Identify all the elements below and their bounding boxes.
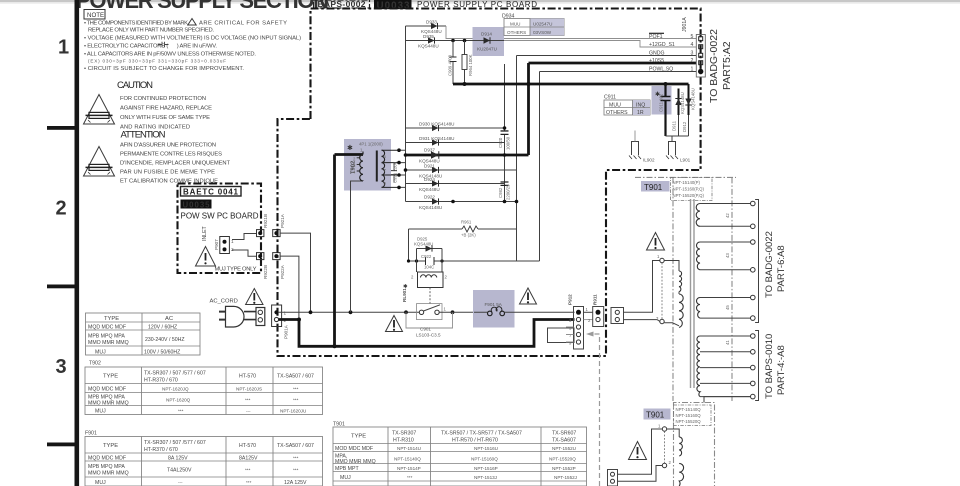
diode D914 (473, 32, 505, 52)
AC plug (219, 306, 256, 327)
svg-text:3: 3 (691, 51, 694, 57)
T902 primary winding (353, 148, 363, 182)
svg-text:HT-R570 / HT-R670: HT-R570 / HT-R670 (452, 438, 498, 444)
second T901 small winding (667, 429, 683, 456)
diode D931 (406, 136, 505, 146)
node matrix left joints (404, 153, 408, 157)
svg-text:***: *** (293, 456, 299, 461)
node C920 top (503, 126, 507, 130)
T902 secondary winding (382, 150, 400, 187)
svg-text:TX-SR307 / 507 /577 / 607: TX-SR307 / 507 /577 / 607 (144, 371, 206, 377)
svg-text:D912: D912 (682, 121, 687, 132)
wire +10S5 thick (529, 62, 697, 65)
svg-text:TX-SR507 / TX-SR577 / TX-SA507: TX-SR507 / TX-SR577 / TX-SA507 (441, 431, 522, 437)
svg-text:PART5:A2: PART5:A2 (721, 41, 733, 90)
svg-text:MPB MPT: MPB MPT (335, 466, 359, 472)
TO BADG-0022 PART5:A2 rotated text (708, 29, 733, 103)
caution text (120, 96, 212, 131)
svg-text:NPT-1552J: NPT-1552J (554, 475, 577, 480)
svg-text:P907: P907 (214, 239, 219, 250)
svg-text:TX-SR307 / 507 /577 / 607: TX-SR307 / 507 /577 / 607 (144, 440, 206, 446)
svg-text:D914: D914 (481, 32, 492, 37)
svg-text:T901: T901 (644, 183, 663, 192)
second T901 link dotted (664, 431, 666, 463)
svg-text:MUJ: MUJ (95, 480, 106, 486)
svg-text:***: *** (246, 480, 252, 485)
caution triangle with fuse (84, 95, 115, 125)
rail x=504.5 (504, 64, 506, 202)
svg-text:P901A: P901A (284, 324, 289, 339)
diode D912 (682, 84, 696, 132)
svg-text:120V / 60HZ: 120V / 60HZ (148, 324, 177, 330)
note bullet list (84, 21, 301, 73)
attention triangle with fuse (84, 147, 115, 177)
svg-text:1R: 1R (637, 110, 644, 116)
node bottom row joints (451, 200, 455, 204)
T902 core (376, 151, 378, 182)
secondary group bracket upper (755, 200, 758, 323)
AC spec table (86, 313, 201, 355)
svg-text:ET CALIBRATION COMME INDIQUE: ET CALIBRATION COMME INDIQUE (120, 179, 218, 185)
P912 pin stubs (566, 327, 574, 342)
guide arrow to P911 (593, 334, 600, 486)
svg-text:L901: L901 (680, 158, 691, 163)
svg-text:TO BADG-0022: TO BADG-0022 (708, 29, 720, 103)
safety mark triangle in note line1 (188, 19, 196, 26)
svg-text:POW SW PC BOARD: POW SW PC BOARD (181, 212, 259, 221)
svg-text:2: 2 (691, 58, 694, 64)
svg-text:***: *** (245, 398, 251, 403)
svg-text:D933: D933 (426, 20, 437, 25)
svg-text:C920: C920 (498, 137, 503, 148)
svg-text:OTHERS: OTHERS (606, 110, 628, 116)
T902 return wire (351, 181, 364, 312)
svg-text:NPT-1516U: NPT-1516U (474, 446, 498, 451)
diode D914 shaded block (473, 27, 505, 56)
relay coil RL901 (411, 272, 448, 288)
node C909 top (451, 39, 455, 43)
svg-text:MOD MDC MDF: MOD MDC MDF (335, 446, 373, 452)
margin tick 1 (47, 126, 75, 130)
svg-text:NPT-15520Q: NPT-15520Q (549, 456, 576, 461)
T901 primary winding small (664, 261, 681, 292)
fuse warning triangle (520, 288, 537, 304)
svg-text:R922B: R922B (263, 265, 268, 279)
second T901 warning triangle (629, 442, 647, 460)
wires to T901 primary (624, 261, 661, 322)
svg-text:NPT-15140Q: NPT-15140Q (676, 407, 702, 412)
svg-text:D922: D922 (424, 195, 435, 200)
svg-text:HT-R370 / 670: HT-R370 / 670 (144, 378, 178, 384)
left rail of rectifier matrix (405, 26, 407, 202)
resistor R961 (409, 220, 517, 238)
wire P912 to R911 (584, 311, 593, 313)
svg-text:KQS4148U: KQS4148U (419, 205, 442, 210)
wire P921A to AC line (280, 233, 310, 312)
svg-text:TYPE: TYPE (104, 316, 119, 322)
svg-text:45: 45 (725, 305, 730, 310)
T902 live feed thick (333, 155, 336, 347)
capacitor C909 (448, 41, 457, 85)
svg-text:***: *** (293, 468, 299, 473)
svg-text:104C: 104C (424, 265, 434, 270)
P911 connector (588, 294, 604, 327)
svg-text:P912: P912 (568, 294, 573, 305)
second T901 terminal 1 (658, 424, 667, 432)
svg-text:AC: AC (165, 316, 173, 322)
svg-text:U0035: U0035 (183, 201, 211, 210)
svg-text:AC_CORD: AC_CORD (210, 299, 238, 305)
svg-text:***: *** (407, 475, 413, 480)
svg-text:T4AL250V: T4AL250V (167, 468, 192, 474)
svg-text:43: 43 (725, 253, 730, 258)
pin R922B (257, 253, 268, 279)
connector P907 (214, 237, 234, 254)
svg-text:12A 125V: 12A 125V (284, 480, 307, 486)
wire C911/D911/D912 bottom join (666, 115, 689, 142)
svg-text:---: --- (178, 480, 183, 485)
T902 spec table (85, 361, 323, 415)
margin tick 2 (47, 285, 75, 289)
diode D926 bottom row (406, 195, 517, 211)
svg-text:MUJ TYPE ONLY: MUJ TYPE ONLY (215, 267, 257, 273)
T901 secondary winding 45 (697, 295, 756, 320)
wire T902 secondary stubs (399, 150, 406, 187)
svg-text:+12GD_S1: +12GD_S1 (649, 42, 675, 48)
svg-text:MUJ: MUJ (95, 349, 106, 355)
node bus/+10S5 rail (527, 82, 531, 86)
margin column line (75, 0, 80, 486)
svg-text:J901A: J901A (682, 17, 688, 32)
svg-text:5: 5 (691, 34, 694, 40)
wire P907-1 to R921B (232, 234, 257, 240)
svg-text:R964 100K: R964 100K (468, 54, 473, 76)
svg-text:AFIN D'ASSURER UNE PROTECTION: AFIN D'ASSURER UNE PROTECTION (120, 143, 216, 149)
attention text (french) (120, 143, 230, 185)
svg-text:P921A: P921A (280, 213, 285, 228)
svg-text:U02547U: U02547U (533, 22, 552, 27)
wire POWL,SQ (540, 71, 697, 73)
snubber C901 loop (406, 312, 453, 328)
T901 label block (641, 181, 670, 192)
svg-text:(EX) 030=3pF 330=33pF 331=330p: (EX) 030=3pF 330=33pF 331=330pF 333=0.03… (88, 59, 226, 64)
svg-text:U0033: U0033 (377, 0, 411, 11)
T901 part list box (671, 178, 713, 201)
svg-text:8A 125V: 8A 125V (168, 456, 188, 462)
pin P921A (273, 213, 285, 236)
line filter IL902 (629, 131, 655, 163)
T901 primary terminal 3 (656, 316, 664, 324)
svg-text:NPT-1620JQ: NPT-1620JQ (162, 386, 189, 391)
svg-text:03VS0W: 03VS0W (533, 30, 552, 35)
svg-text:8A125V: 8A125V (239, 456, 258, 462)
wire D933 to POF1 (446, 26, 696, 39)
main power supply board dashed outline (278, 9, 701, 357)
second T901 label block (644, 409, 671, 420)
header U0035 black tag (374, 0, 412, 11)
rail x=539.5 POWL down (539, 72, 541, 262)
node drive joins (407, 259, 410, 262)
diode D937 on thick row (406, 148, 529, 164)
svg-text:PERMANENTE CONTRE LES RISQUES: PERMANENTE CONTRE LES RISQUES (120, 152, 222, 158)
svg-text:MUU: MUU (609, 102, 621, 108)
capacitor symbol in note line3 (158, 42, 169, 48)
svg-text:TX-SR607: TX-SR607 (552, 431, 576, 437)
pin P922A (273, 253, 285, 279)
node AC live / P921A (309, 310, 313, 314)
C911 info table (604, 95, 650, 116)
wire drive return y=261 (409, 229, 540, 261)
main DC thick bus y=84 (453, 83, 689, 86)
node T902 sec pins (397, 148, 401, 152)
capacitor C922 on return row (421, 254, 434, 270)
T901 primary link dotted (661, 263, 663, 320)
T901 secondary winding 41 multi-tap (697, 334, 755, 399)
svg-text:C982: C982 (498, 187, 503, 198)
svg-text:D911: D911 (672, 120, 677, 131)
svg-text:C909 4700: C909 4700 (448, 54, 453, 76)
svg-text:KQS4148U: KQS4148U (691, 88, 696, 110)
T902 feed horizontal (335, 153, 364, 156)
diode D930 (406, 122, 505, 132)
node bus/C911 (664, 82, 668, 86)
svg-text:T902: T902 (89, 361, 101, 367)
svg-text:F901: F901 (85, 431, 97, 437)
node neutral/P922A (297, 318, 301, 322)
T901 primary terminal 1 (657, 254, 664, 263)
ac warning triangle (246, 289, 263, 305)
node AC live / T902 return (349, 310, 353, 314)
svg-text:• THE COMPONENTS IDENTIFIED BY: • THE COMPONENTS IDENTIFIED BY MARK (84, 21, 188, 27)
AC neutral thick U bus (279, 320, 575, 347)
connector J901A (682, 17, 705, 77)
POW SW PC BOARD dashed outline (178, 184, 262, 274)
svg-text:D931 KQS4148U: D931 KQS4148U (419, 136, 455, 141)
margin tick 3 (47, 443, 75, 447)
second T901 large winding (679, 463, 683, 486)
svg-text:KQS448U: KQS448U (421, 29, 442, 34)
svg-text:NPT-15140(P): NPT-15140(P) (673, 180, 701, 185)
svg-text:ARE CRITICAL FOR SAFETY: ARE CRITICAL FOR SAFETY (199, 21, 287, 27)
svg-text:***: *** (178, 408, 184, 413)
T901 core (691, 199, 695, 388)
capacitor C982 (498, 182, 511, 200)
svg-text:PART-4:-A8: PART-4:-A8 (776, 345, 787, 395)
svg-text:MPB MPQ MPA: MPB MPQ MPA (88, 333, 125, 339)
F901 spec table (85, 431, 323, 486)
svg-text:CAUTION: CAUTION (117, 80, 153, 91)
svg-text:HT-570: HT-570 (239, 374, 256, 380)
svg-text:INQ: INQ (636, 102, 645, 108)
svg-text:BAETC 0041: BAETC 0041 (183, 188, 239, 197)
svg-text:NPT-1514U: NPT-1514U (397, 446, 421, 451)
svg-text:1: 1 (58, 37, 69, 59)
svg-text:R911: R911 (593, 294, 598, 305)
svg-text:D930 KQS4148U: D930 KQS4148U (419, 122, 455, 127)
svg-text:✱: ✱ (403, 283, 408, 290)
svg-text:PART-6:A8: PART-6:A8 (776, 245, 787, 292)
C921 component (391, 161, 398, 183)
svg-text:***: *** (293, 398, 299, 403)
diode D925 (414, 237, 442, 252)
svg-text:HT-570: HT-570 (239, 443, 256, 449)
svg-text:MUJ: MUJ (95, 408, 106, 414)
TO BADG-0022 PART-6:A8 rotated (764, 231, 787, 298)
secondary group bracket lower (755, 331, 758, 401)
P912 aux box (548, 328, 575, 343)
svg-text:---: --- (246, 408, 251, 413)
svg-text:1: 1 (284, 311, 287, 316)
svg-text:NPT-15140Q: NPT-15140Q (394, 456, 421, 461)
wires second T901 connector (618, 429, 663, 481)
svg-text:+B (2K): +B (2K) (461, 233, 476, 238)
svg-text:41: 41 (725, 340, 730, 345)
svg-text:NPT-1620JS: NPT-1620JS (236, 386, 262, 391)
svg-text:TO BAPS-0010: TO BAPS-0010 (764, 334, 775, 399)
svg-text:TYPE: TYPE (103, 374, 118, 380)
wire P907-2 to R922B (232, 250, 257, 256)
svg-text:NPT-1620JU: NPT-1620JU (280, 408, 306, 413)
svg-text:***: *** (245, 468, 251, 473)
svg-text:42: 42 (725, 213, 730, 218)
svg-text:MPB MPQ MPA: MPB MPQ MPA (88, 464, 125, 470)
svg-text:TYPE: TYPE (103, 443, 118, 449)
connector P901A (272, 305, 289, 339)
diode D911 (672, 89, 686, 132)
svg-text:NPT-1514P: NPT-1514P (397, 466, 421, 471)
svg-text:POWL,SQ: POWL,SQ (649, 67, 673, 73)
D934 info table (502, 14, 564, 36)
fuse F901 shaded block (473, 290, 515, 328)
svg-text:POWER SUPPLY SECTION: POWER SUPPLY SECTION (76, 0, 329, 13)
svg-text:KQS448U: KQS448U (418, 44, 439, 49)
header gray strip (0, 0, 960, 2)
diode D924 (406, 177, 505, 192)
svg-text:NPT-15160Q: NPT-15160Q (676, 413, 702, 418)
svg-text:4: 4 (691, 42, 694, 48)
NOTE box (84, 10, 105, 20)
T901 secondary winding 42 (696, 201, 755, 228)
svg-text:R961: R961 (461, 220, 472, 225)
svg-text:3: 3 (56, 356, 67, 378)
node relay input (404, 310, 408, 314)
svg-text:• ALL CAPACITORS ARE IN pF/50W: • ALL CAPACITORS ARE IN pF/50WV UNLESS O… (84, 52, 256, 58)
svg-text:C911 102: C911 102 (659, 93, 664, 112)
svg-text:C901: C901 (420, 327, 431, 332)
svg-text:MUU: MUU (510, 22, 520, 27)
svg-text:TYPE: TYPE (351, 434, 366, 440)
rail x=528.5 thick (527, 63, 530, 155)
svg-text:230-240V / 50HZ: 230-240V / 50HZ (145, 337, 185, 343)
relay mechanical link (429, 288, 431, 305)
wire winding41 tap into lower unit (704, 397, 751, 403)
svg-text:NOTE: NOTE (87, 12, 104, 19)
svg-text:***: *** (293, 386, 299, 391)
svg-text:1: 1 (691, 67, 694, 73)
svg-text:LS103-C3.5: LS103-C3.5 (416, 333, 441, 338)
header board ref box BAPS-0002 (314, 0, 370, 9)
svg-text:PAR UN FUSIBLE DE MEME TYPE: PAR UN FUSIBLE DE MEME TYPE (120, 170, 215, 176)
svg-text:MMO MMR MMQ: MMO MMR MMQ (88, 340, 129, 346)
svg-text:D921: D921 (424, 164, 435, 169)
svg-text:ATTENTION: ATTENTION (121, 130, 166, 141)
svg-text:MMO MMR MMQ: MMO MMR MMQ (88, 401, 129, 407)
pin R921B (257, 214, 268, 237)
node C920 bottom (503, 153, 507, 157)
inlet warning triangle (196, 247, 216, 267)
capacitor C920 (498, 131, 511, 150)
node R964 top (463, 39, 467, 43)
TO BAPS-0010 PART-4:-A8 rotated (764, 334, 787, 399)
svg-text:TX-SA507 / 607: TX-SA507 / 607 (277, 443, 314, 449)
svg-text:KQS448U: KQS448U (419, 187, 440, 192)
RL901 label (402, 283, 408, 302)
resistor R964 (462, 41, 473, 85)
svg-text:• ELECTROLYTIC CAPACITORS (: • ELECTROLYTIC CAPACITORS ( ) ARE IN uF/… (84, 44, 217, 50)
wire P912 pin2 to R911 pin2 (584, 319, 593, 321)
diode D935 (406, 34, 473, 48)
svg-text:NPT-15520Q: NPT-15520Q (676, 419, 702, 424)
J901A wire labels (649, 33, 675, 72)
wire P922A down (280, 256, 299, 319)
relay warning triangle (386, 316, 403, 332)
svg-text:MUJ: MUJ (340, 475, 351, 481)
svg-text:D937: D937 (424, 148, 435, 153)
svg-text:AGAINST FIRE HAZARD, REPLACE: AGAINST FIRE HAZARD, REPLACE (120, 106, 212, 112)
second T901 terminal 2 (662, 460, 671, 468)
svg-text:+10S5: +10S5 (649, 58, 664, 64)
J901A pin numbers (691, 34, 694, 73)
svg-text:2200/25: 2200/25 (506, 184, 511, 200)
svg-text:GNDG: GNDG (649, 51, 665, 57)
svg-text:NPT-1552U: NPT-1552U (552, 446, 576, 451)
svg-text:TX-SA607: TX-SA607 (552, 438, 576, 444)
svg-text:D'INCENDIE, REMPLACER UNIQUEME: D'INCENDIE, REMPLACER UNIQUEMENT (120, 161, 230, 167)
diode D921 (406, 164, 517, 179)
svg-text:F901 5A: F901 5A (485, 302, 503, 307)
svg-text:T901: T901 (646, 411, 665, 420)
T901 secondary winding 43 (697, 240, 756, 272)
wire D914 to +12GD (504, 41, 696, 48)
node bus/R964 (463, 82, 467, 86)
svg-text:NPT-1513J: NPT-1513J (474, 475, 497, 480)
svg-text:HT-R310: HT-R310 (393, 438, 414, 444)
P912 connector (568, 294, 589, 349)
svg-text:MQD MDC MDF: MQD MDC MDF (88, 386, 126, 392)
svg-text:REPLACE ONLY WITH PART NUMBER: REPLACE ONLY WITH PART NUMBER SPECIFIED. (88, 28, 214, 34)
svg-text:TX-SA507 / 607: TX-SA507 / 607 (277, 374, 314, 380)
rail x=516.5 (516, 56, 518, 262)
T901 unit dashed boundary (635, 177, 736, 401)
svg-text:MMO MMR MMQ: MMO MMR MMQ (88, 471, 129, 477)
capacitor C911 (655, 84, 671, 136)
svg-text:2: 2 (56, 198, 67, 220)
T901 connector (board edge) (611, 308, 624, 324)
T902 shaded block (344, 139, 391, 191)
svg-text:NPT-15520(P,Q): NPT-15520(P,Q) (673, 193, 705, 198)
svg-text:MQD MDC MDF: MQD MDC MDF (88, 324, 126, 330)
node neutral/T902 (333, 344, 337, 348)
line filter L901 (666, 142, 691, 163)
svg-text:• VOLTAGE (MEASURED WITH VOLTM: • VOLTAGE (MEASURED WITH VOLTMETER) IS D… (84, 36, 301, 42)
svg-text:• CIRCUIT IS SUBJECT TO CHANGE: • CIRCUIT IS SUBJECT TO CHANGE FOR IMPRO… (84, 66, 244, 72)
fuse F901 (474, 302, 515, 316)
svg-text:100/50: 100/50 (506, 136, 511, 150)
second T901 unit dashed box (674, 403, 715, 486)
svg-text:P922A: P922A (280, 264, 285, 279)
svg-text:NPT-1620Q: NPT-1620Q (166, 398, 191, 403)
svg-text:R921B: R921B (263, 214, 268, 228)
